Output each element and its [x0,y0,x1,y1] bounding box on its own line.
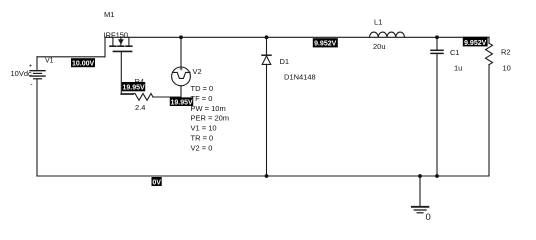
inductor L1 [370,32,405,37]
svg-text:PER = 20m: PER = 20m [191,114,230,123]
svg-text:TR = 0: TR = 0 [191,134,214,143]
resistor R4 [121,94,153,101]
transistor M1 body IRF150 [110,37,132,51]
wire bottom rail [37,175,489,177]
svg-text:V2 = 0: V2 = 0 [191,143,213,152]
svg-text:19.95V: 19.95V [123,85,146,92]
diode D1 [262,37,271,176]
wire V2 top lead [180,37,182,67]
svg-text:0: 0 [426,212,431,223]
probe label 9.952V out [463,37,488,47]
wire V2 bottom lead [180,86,182,97]
probe label 10.00V [71,58,95,67]
wire battery top [37,56,105,58]
wire gate to V2 minus [153,96,181,98]
svg-text:19.95V: 19.95V [171,100,194,107]
wire battery bottom lead [36,79,38,176]
svg-text:9.952V: 9.952V [314,41,337,48]
node dot D1 bottom [265,174,269,178]
svg-text:10Vdc: 10Vdc [11,69,33,78]
node dot D1 top [265,35,269,39]
svg-text:PW = 10m: PW = 10m [191,104,226,113]
svg-text:D1N4148: D1N4148 [284,73,316,82]
resistor R2 [486,37,493,176]
node dot V2 tap [179,35,183,39]
capacitor C1 [431,37,443,176]
wire drain riser [104,37,106,57]
wire battery top lead [36,57,38,71]
svg-text:V1 = 10: V1 = 10 [191,124,217,133]
svg-text:2.4: 2.4 [135,103,145,112]
svg-text:20u: 20u [373,42,386,51]
probe label 19.95V gate [122,82,145,92]
svg-text:D1: D1 [280,57,290,66]
svg-text:+: + [29,64,33,70]
svg-text:IRF150: IRF150 [104,31,129,40]
svg-text:1u: 1u [454,64,462,73]
svg-text:L1: L1 [374,18,382,27]
node dot C1 top [435,35,439,39]
svg-text:M1: M1 [104,10,114,19]
svg-text:V1: V1 [45,58,54,65]
voltage source V2 pulse [172,67,191,86]
svg-text:V2: V2 [193,67,202,76]
svg-text:C1: C1 [450,48,460,57]
probe label 19.95V v2 [170,97,193,106]
svg-text:9.952V: 9.952V [464,40,487,47]
svg-text:0V: 0V [152,179,161,186]
node dot C1 bottom [435,174,439,178]
node dot ground tap [418,174,422,178]
probe label 0V [152,177,162,186]
svg-text:10.00V: 10.00V [72,61,95,68]
wire gate lead [120,52,122,94]
svg-text:10: 10 [503,64,511,73]
svg-text:TD = 0: TD = 0 [191,84,214,93]
battery V1 10Vdc [30,71,45,79]
ground 0 [412,176,429,213]
wire top rail [105,36,489,38]
svg-text:TF = 0: TF = 0 [191,94,213,103]
probe label 9.952V mid [313,38,338,48]
svg-text:R2: R2 [501,48,511,57]
